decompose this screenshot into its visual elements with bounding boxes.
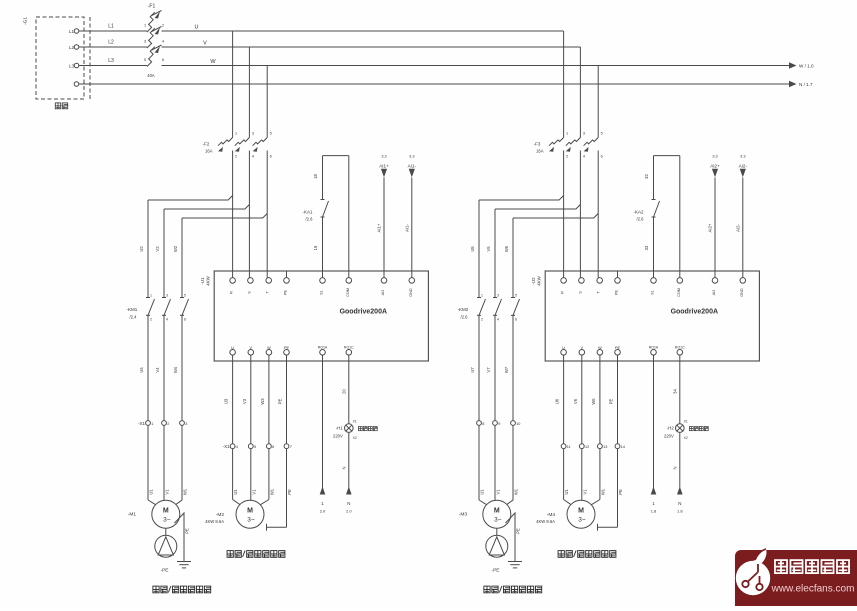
svg-text:L1: L1 — [108, 24, 114, 30]
svg-text:12: 12 — [585, 445, 589, 449]
svg-text:-F2: -F2 — [203, 142, 210, 147]
svg-text:R: R — [230, 291, 234, 294]
svg-text:V: V — [203, 41, 207, 47]
svg-text:8: 8 — [482, 422, 484, 426]
svg-text:1: 1 — [235, 132, 237, 136]
svg-text:5: 5 — [144, 58, 146, 62]
svg-text:W6: W6 — [591, 398, 596, 405]
svg-text:S1: S1 — [320, 290, 324, 295]
svg-text:M: M — [163, 508, 169, 515]
svg-text:W1: W1 — [600, 488, 605, 495]
svg-text:10: 10 — [516, 422, 520, 426]
svg-text:U: U — [195, 25, 199, 31]
svg-text:4KW 8.6A: 4KW 8.6A — [205, 519, 224, 524]
svg-text:220V: 220V — [333, 434, 343, 439]
svg-text:M: M — [494, 508, 500, 515]
svg-text:6: 6 — [601, 155, 603, 159]
svg-text:6: 6 — [270, 155, 272, 159]
svg-text:U5: U5 — [470, 246, 475, 252]
svg-text:-PE: -PE — [492, 568, 500, 574]
svg-text:S1: S1 — [651, 290, 655, 295]
svg-text:1: 1 — [566, 132, 568, 136]
svg-text:16A: 16A — [205, 149, 213, 154]
svg-text:AI1+: AI1+ — [379, 164, 389, 169]
svg-text:W7: W7 — [504, 366, 509, 373]
svg-text:5: 5 — [254, 445, 256, 449]
svg-text:PE: PE — [284, 290, 288, 296]
svg-text:AI2+: AI2+ — [708, 223, 713, 232]
svg-text:U6: U6 — [555, 398, 560, 404]
svg-text:19: 19 — [313, 245, 318, 250]
svg-text:V7: V7 — [486, 367, 491, 373]
svg-text:1.8: 1.8 — [677, 509, 683, 514]
svg-text:-M1: -M1 — [128, 512, 137, 518]
svg-text:V3: V3 — [242, 398, 247, 404]
svg-text:AI2-: AI2- — [739, 164, 748, 169]
svg-text:-H1: -H1 — [336, 426, 344, 431]
svg-text:N / 1.7: N / 1.7 — [799, 82, 813, 87]
svg-text:RO1A: RO1A — [649, 346, 659, 350]
svg-text:3: 3 — [185, 422, 187, 426]
svg-text:4: 4 — [252, 155, 254, 159]
svg-text:U1: U1 — [480, 489, 485, 495]
svg-text:/2.6: /2.6 — [637, 217, 645, 222]
svg-text:W / 1.0: W / 1.0 — [799, 64, 814, 69]
svg-text:220V: 220V — [664, 434, 674, 439]
svg-text:-M4: -M4 — [547, 512, 556, 518]
svg-text:AI1-: AI1- — [408, 164, 417, 169]
svg-text:6: 6 — [162, 58, 164, 62]
svg-text:L3: L3 — [69, 63, 75, 68]
svg-text:W: W — [598, 346, 602, 350]
svg-text:4KW: 4KW — [537, 275, 542, 285]
svg-text:3: 3 — [583, 132, 585, 136]
svg-text:AI1-: AI1- — [404, 224, 409, 232]
svg-text:W5: W5 — [504, 245, 509, 252]
svg-text:W2: W2 — [173, 245, 178, 252]
svg-text:M: M — [247, 508, 253, 515]
svg-text:-G1: -G1 — [23, 17, 29, 25]
svg-text:PE: PE — [287, 489, 292, 495]
svg-text:3: 3 — [144, 40, 146, 44]
svg-text:PE: PE — [185, 528, 190, 534]
svg-text:5: 5 — [270, 132, 272, 136]
svg-text:3.3: 3.3 — [712, 155, 717, 159]
svg-text:-M2: -M2 — [216, 512, 225, 518]
svg-text:X1: X1 — [684, 420, 688, 424]
svg-text:PE: PE — [609, 399, 614, 405]
svg-text:18: 18 — [313, 174, 318, 179]
svg-text:4: 4 — [166, 318, 168, 322]
svg-text:1: 1 — [150, 294, 152, 298]
svg-text:V2: V2 — [155, 246, 160, 252]
svg-text:S: S — [578, 291, 582, 294]
svg-text:U1: U1 — [564, 489, 569, 495]
svg-text:COM: COM — [677, 288, 681, 297]
svg-text:1: 1 — [144, 24, 146, 28]
svg-text:2: 2 — [167, 422, 169, 426]
svg-text:PE: PE — [278, 399, 283, 405]
svg-text:W1: W1 — [269, 488, 274, 495]
svg-text:U: U — [231, 346, 234, 350]
svg-text:33: 33 — [644, 245, 649, 250]
svg-text:V1: V1 — [582, 489, 587, 495]
svg-text:GND: GND — [409, 288, 413, 297]
svg-text:2.0: 2.0 — [346, 509, 352, 514]
svg-text:2.0: 2.0 — [320, 509, 326, 514]
svg-text:AI2: AI2 — [712, 290, 716, 296]
svg-text:AI2+: AI2+ — [710, 164, 720, 169]
svg-text:X2: X2 — [353, 436, 357, 440]
svg-text:/2.6: /2.6 — [306, 217, 314, 222]
svg-text:Goodrive200A: Goodrive200A — [340, 309, 387, 316]
svg-text:L3: L3 — [108, 58, 114, 64]
svg-text:W3: W3 — [260, 398, 265, 405]
svg-text:N: N — [341, 466, 346, 469]
svg-text:X1: X1 — [353, 420, 357, 424]
svg-text:4KW: 4KW — [206, 275, 211, 285]
svg-text:1.8: 1.8 — [651, 509, 657, 514]
svg-text:-M3: -M3 — [459, 512, 468, 518]
svg-text:6: 6 — [272, 445, 274, 449]
svg-text:1: 1 — [481, 294, 483, 298]
svg-text:V5: V5 — [486, 246, 491, 252]
svg-text:-U2: -U2 — [531, 277, 536, 285]
svg-text:1: 1 — [151, 422, 153, 426]
svg-text:2: 2 — [566, 155, 568, 159]
svg-text:RO1C: RO1C — [675, 346, 685, 350]
svg-text:W4: W4 — [173, 366, 178, 373]
svg-text:-KM1: -KM1 — [127, 307, 138, 312]
svg-text:-F3: -F3 — [534, 142, 541, 147]
svg-text:7: 7 — [290, 445, 292, 449]
svg-text:-X1: -X1 — [223, 444, 231, 449]
svg-text:U4: U4 — [139, 367, 144, 373]
svg-text:-H2: -H2 — [667, 426, 675, 431]
svg-text:U7: U7 — [470, 367, 475, 373]
svg-text:R: R — [561, 291, 565, 294]
svg-text:V6: V6 — [573, 398, 578, 404]
svg-text:N: N — [347, 501, 350, 506]
svg-text:-KA1: -KA1 — [302, 210, 313, 215]
svg-text:3~: 3~ — [578, 517, 586, 524]
svg-text:3~: 3~ — [494, 517, 502, 524]
svg-text:Goodrive200A: Goodrive200A — [671, 309, 718, 316]
svg-text:U2: U2 — [139, 246, 144, 252]
svg-text:3: 3 — [497, 294, 499, 298]
svg-text:COM: COM — [346, 288, 350, 297]
svg-text:16A: 16A — [536, 149, 544, 154]
svg-text:5: 5 — [601, 132, 603, 136]
svg-text:AI2-: AI2- — [735, 224, 740, 232]
svg-text:M: M — [578, 508, 584, 515]
svg-text:5: 5 — [515, 294, 517, 298]
svg-text:PE: PE — [284, 346, 290, 350]
svg-text:L2: L2 — [108, 40, 114, 46]
svg-text:-F1: -F1 — [148, 4, 156, 10]
svg-text:-X1: -X1 — [138, 421, 146, 426]
svg-text:4: 4 — [236, 445, 238, 449]
svg-text:3.3: 3.3 — [381, 155, 386, 159]
svg-text:4: 4 — [497, 318, 499, 322]
svg-text:U1: U1 — [149, 489, 154, 495]
svg-text:N: N — [672, 466, 677, 469]
svg-text:3: 3 — [166, 294, 168, 298]
svg-text:L1: L1 — [69, 29, 75, 34]
svg-text:-KM2: -KM2 — [458, 307, 469, 312]
svg-text:20: 20 — [341, 389, 346, 394]
svg-text:GND: GND — [740, 288, 744, 297]
svg-text:V1: V1 — [165, 489, 170, 495]
svg-text:2: 2 — [235, 155, 237, 159]
svg-text:V1: V1 — [251, 489, 256, 495]
svg-text:PE: PE — [516, 528, 521, 534]
svg-text:U: U — [562, 346, 565, 350]
svg-text:U1: U1 — [233, 489, 238, 495]
svg-text:AI2: AI2 — [381, 290, 385, 296]
svg-text:N: N — [678, 501, 681, 506]
svg-text:PE: PE — [618, 489, 623, 495]
svg-text:2: 2 — [150, 318, 152, 322]
svg-text:W1: W1 — [514, 488, 519, 495]
svg-text:2: 2 — [481, 318, 483, 322]
svg-text:RO1C: RO1C — [344, 346, 354, 350]
svg-text:V: V — [250, 346, 253, 350]
svg-text:13: 13 — [603, 445, 607, 449]
svg-text:V: V — [581, 346, 584, 350]
svg-text:W: W — [210, 59, 216, 65]
svg-text:4KW 8.6A: 4KW 8.6A — [536, 519, 555, 524]
svg-text:3~: 3~ — [163, 517, 171, 524]
svg-text:RO1A: RO1A — [318, 346, 328, 350]
svg-text:-U1: -U1 — [200, 277, 205, 285]
svg-text:2: 2 — [162, 24, 164, 28]
svg-text:AI1+: AI1+ — [377, 223, 382, 232]
svg-text:9: 9 — [498, 422, 500, 426]
svg-text:PE: PE — [615, 346, 621, 350]
svg-text:4: 4 — [162, 40, 164, 44]
svg-text:W: W — [267, 346, 271, 350]
svg-text:5: 5 — [184, 294, 186, 298]
svg-text:4: 4 — [583, 155, 585, 159]
svg-text:-PE: -PE — [161, 568, 169, 574]
svg-text:U3: U3 — [224, 398, 229, 404]
svg-text:40A: 40A — [147, 73, 155, 78]
svg-text:V4: V4 — [155, 367, 160, 373]
svg-text:W1: W1 — [183, 488, 188, 495]
svg-text:X2: X2 — [684, 436, 688, 440]
svg-text:-KA2: -KA2 — [633, 210, 644, 215]
svg-text:3.3: 3.3 — [740, 155, 745, 159]
svg-text:6: 6 — [515, 318, 517, 322]
svg-text:/2.6: /2.6 — [461, 315, 469, 320]
svg-text:V1: V1 — [496, 489, 501, 495]
svg-text:3.3: 3.3 — [409, 155, 414, 159]
svg-text:11: 11 — [567, 445, 571, 449]
svg-text:3~: 3~ — [247, 517, 255, 524]
svg-text:34: 34 — [672, 389, 677, 394]
svg-text:3: 3 — [252, 132, 254, 136]
svg-text:6: 6 — [184, 318, 186, 322]
svg-text:/2.4: /2.4 — [130, 315, 138, 320]
svg-text:32: 32 — [644, 174, 649, 179]
svg-text:www.elecfans.com: www.elecfans.com — [771, 584, 855, 595]
svg-text:14: 14 — [621, 445, 625, 449]
svg-text:S: S — [247, 291, 251, 294]
svg-text:PE: PE — [615, 290, 619, 296]
svg-text:L2: L2 — [69, 45, 75, 50]
